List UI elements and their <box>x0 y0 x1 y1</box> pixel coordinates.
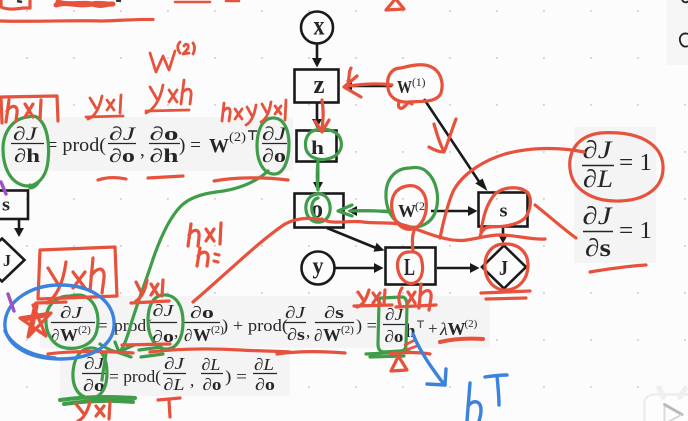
svg-text:y: y <box>313 254 324 280</box>
svg-text:) + prod(: ) + prod( <box>222 316 288 335</box>
svg-text:∂h: ∂h <box>150 146 180 167</box>
svg-text:= prod(: = prod( <box>46 135 106 156</box>
svg-text:(2): (2) <box>229 129 246 144</box>
svg-text:W: W <box>60 325 78 345</box>
svg-text:∂J: ∂J <box>60 303 84 322</box>
svg-text:∂o: ∂o <box>190 303 214 322</box>
svg-text:) =: ) = <box>356 316 377 335</box>
svg-text:∂J: ∂J <box>164 354 186 373</box>
svg-text:∂L: ∂L <box>202 355 221 374</box>
svg-text:,: , <box>306 322 310 341</box>
svg-text:∂J: ∂J <box>583 137 614 164</box>
svg-text:J: J <box>3 251 11 270</box>
svg-text:W: W <box>323 325 341 345</box>
svg-text:∂J: ∂J <box>285 303 307 322</box>
svg-text:s: s <box>2 195 10 216</box>
svg-text:(2): (2) <box>465 318 478 330</box>
svg-text:∂s: ∂s <box>585 235 611 262</box>
svg-text:W: W <box>209 135 229 157</box>
svg-text:∂: ∂ <box>314 326 322 345</box>
svg-text:∂h: ∂h <box>14 146 41 167</box>
svg-text:,: , <box>174 322 178 341</box>
svg-text:∂o: ∂o <box>385 327 404 346</box>
svg-text:,: , <box>140 140 145 161</box>
svg-text:∂: ∂ <box>184 326 192 345</box>
svg-text:∂o: ∂o <box>255 375 275 394</box>
svg-text:J: J <box>499 256 508 280</box>
svg-text:) =: ) = <box>225 367 247 386</box>
svg-text:x: x <box>314 11 325 41</box>
svg-text:∂o: ∂o <box>109 146 135 167</box>
svg-text:W: W <box>448 319 466 339</box>
svg-text:W: W <box>193 325 211 345</box>
svg-text:∂o: ∂o <box>262 146 286 167</box>
svg-text:= 1: = 1 <box>619 150 652 176</box>
svg-text:∂J: ∂J <box>583 203 614 230</box>
svg-text:(2): (2) <box>78 324 91 336</box>
svg-text:W: W <box>398 201 416 221</box>
svg-text:= prod(: = prod( <box>109 367 161 386</box>
svg-text:∂J: ∂J <box>109 124 137 145</box>
svg-text:W: W <box>397 77 412 97</box>
svg-text:∂L: ∂L <box>254 355 274 374</box>
svg-text:∂J: ∂J <box>13 124 39 145</box>
svg-text:= 1: = 1 <box>619 218 652 244</box>
svg-text:∂o: ∂o <box>203 375 222 394</box>
svg-text:s: s <box>500 201 508 222</box>
svg-text:∂s: ∂s <box>324 303 344 322</box>
svg-text:(1): (1) <box>412 77 426 89</box>
svg-text:∂s: ∂s <box>287 325 305 344</box>
svg-text:L: L <box>404 255 415 281</box>
svg-text:∂L: ∂L <box>164 375 185 394</box>
svg-text:(2): (2) <box>341 324 354 336</box>
svg-text:∂o: ∂o <box>150 124 179 145</box>
svg-text:,: , <box>190 371 194 390</box>
svg-text:+: + <box>428 319 438 338</box>
svg-text:) =: ) = <box>179 135 201 156</box>
svg-text:∂J: ∂J <box>153 301 176 320</box>
svg-text:(2: (2 <box>415 199 425 213</box>
svg-text:z: z <box>314 70 325 99</box>
svg-text:∂L: ∂L <box>583 166 613 193</box>
